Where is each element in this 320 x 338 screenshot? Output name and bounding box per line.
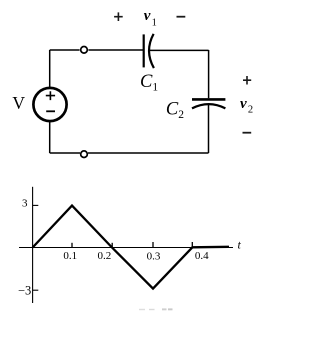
- capacitor C1 straight plate: [143, 34, 145, 67]
- label - (v1 minus sign): [177, 16, 186, 18]
- voltage source V circle: [33, 88, 66, 121]
- tick 0.3: [152, 242, 154, 248]
- tick 0.2: [111, 243, 113, 248]
- graph y-axis: [32, 187, 34, 303]
- tick 0.1: [71, 243, 73, 248]
- waveform triangle: [33, 206, 229, 289]
- tick +3: [33, 204, 39, 206]
- voltage source plus sign: [46, 91, 55, 100]
- label + (v1 plus sign): [114, 12, 123, 21]
- tick -3: [33, 289, 39, 291]
- svg-text:3: 3: [22, 198, 28, 210]
- right rail lower segment: [208, 105, 210, 153]
- tick 0.4: [191, 242, 193, 248]
- faint cropped figure number: [139, 308, 173, 310]
- svg-text:V: V: [12, 93, 25, 113]
- svg-text:0.4: 0.4: [195, 250, 209, 262]
- svg-text:0.2: 0.2: [98, 250, 112, 262]
- wire top-left segment: [50, 49, 80, 51]
- terminal node bottom (open circle): [81, 151, 88, 158]
- bottom wire right segment: [88, 152, 209, 154]
- svg-text:0.3: 0.3: [147, 250, 161, 262]
- right rail upper segment: [208, 50, 210, 98]
- capacitor C2 straight plate: [192, 98, 225, 101]
- left rail upper segment: [49, 50, 51, 87]
- bottom wire left segment: [50, 152, 80, 154]
- wire top right segment: [149, 49, 208, 51]
- wire top middle segment: [88, 49, 143, 51]
- svg-text:0.1: 0.1: [63, 250, 77, 262]
- left rail lower segment: [49, 122, 51, 153]
- label + (v2 plus sign): [243, 76, 251, 85]
- voltage source minus sign: [46, 110, 55, 112]
- svg-text:−3: −3: [18, 284, 31, 298]
- graph t-axis: [19, 247, 233, 249]
- label - (v2 minus sign): [243, 132, 252, 134]
- capacitor C2 curved plate: [192, 104, 225, 108]
- capacitor C1 curved plate: [149, 34, 154, 68]
- terminal node top (open circle): [81, 47, 88, 54]
